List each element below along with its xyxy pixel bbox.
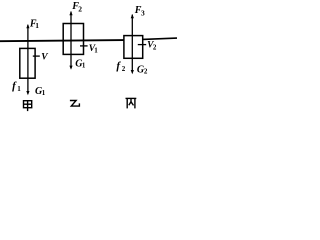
force shaft F1/G1 through block 甲 [27, 25, 29, 94]
velocity tick V2 [138, 44, 146, 46]
velocity tick V1 [80, 45, 88, 47]
arrowhead G2 [131, 70, 134, 74]
ceiling line left segment [0, 40, 124, 41]
block 甲 [20, 48, 35, 78]
label 丙 [126, 98, 137, 108]
svg-text:1: 1 [94, 47, 98, 55]
svg-text:1: 1 [35, 21, 39, 30]
block 乙 [63, 24, 83, 55]
force shaft F3/G2 through block 丙 [131, 15, 133, 73]
arrowhead G1 (乙) [69, 66, 72, 70]
svg-text:1: 1 [82, 62, 86, 70]
velocity tick V [33, 55, 40, 57]
svg-text:2: 2 [122, 65, 126, 73]
svg-text:1: 1 [17, 85, 21, 93]
block 丙 [124, 36, 143, 59]
arrowhead F2 [69, 11, 72, 15]
ceiling line right segment [143, 38, 177, 39]
arrowhead G1 (甲) [26, 91, 29, 95]
force shaft F2/G1 through block 乙 [70, 12, 72, 69]
svg-text:2: 2 [144, 68, 148, 76]
svg-text:V: V [41, 53, 48, 63]
arrowhead F1 [26, 24, 29, 28]
arrowhead F3 [131, 14, 134, 18]
svg-text:2: 2 [78, 5, 82, 14]
svg-text:3: 3 [141, 9, 145, 18]
svg-text:2: 2 [153, 43, 157, 51]
svg-text:1: 1 [42, 89, 46, 97]
label 乙 [70, 101, 80, 107]
label 甲 [24, 101, 32, 111]
